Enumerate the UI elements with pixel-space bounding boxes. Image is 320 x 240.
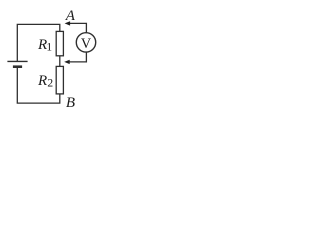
resistor R1 — [56, 31, 63, 55]
wire bottom — [17, 68, 60, 103]
wire voltmeter top probe — [70, 23, 87, 32]
resistor R2 — [56, 66, 63, 94]
wire top — [17, 24, 60, 61]
battery negative plate — [13, 65, 22, 68]
wire voltmeter bottom probe — [69, 52, 86, 62]
svg-text:A: A — [65, 8, 76, 24]
svg-text:1: 1 — [46, 42, 52, 54]
battery positive plate — [7, 60, 27, 62]
voltmeter U1 circle — [76, 33, 95, 52]
svg-text:2: 2 — [47, 78, 53, 90]
svg-text:V: V — [81, 36, 92, 52]
arrowhead to R1-R2 junction — [64, 60, 70, 64]
svg-text:B: B — [66, 95, 75, 111]
arrowhead to node A — [65, 21, 71, 25]
svg-text:R: R — [37, 73, 47, 89]
wire between resistors — [59, 56, 61, 67]
